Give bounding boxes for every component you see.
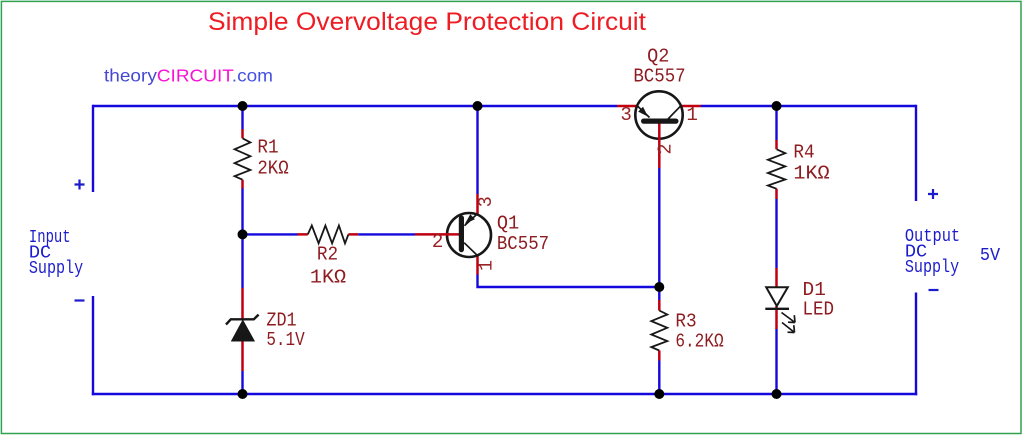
junction R1-R2-ZD1 node [238,229,248,239]
svg-text:Q2: Q2 [647,45,669,67]
wire: R1 branch from top rail [241,106,243,129]
svg-text:BC557: BC557 [497,233,549,255]
svg-text:1: 1 [686,104,698,126]
svg-text:3: 3 [620,104,632,126]
wire: R1 bottom to node [241,189,243,235]
wire: top rail to R4 [775,106,777,140]
junction top rail R4 [772,101,782,111]
junction Q1-Q2-R3 node [654,282,664,292]
svg-text:theoryCIRCUIT.com: theoryCIRCUIT.com [104,65,273,85]
svg-text:6.2KΩ: 6.2KΩ [675,331,723,353]
junction bottom rail R3 [654,389,664,399]
svg-text:BC557: BC557 [633,65,685,87]
label Input DC Supply [29,228,83,279]
svg-text:3: 3 [475,196,497,207]
LED D1 [765,268,795,333]
svg-text:Supply: Supply [905,258,959,278]
svg-text:1KΩ: 1KΩ [793,163,829,185]
junction top rail Q1 [473,101,483,111]
wire: bottom rail [92,393,917,395]
wire: right rail lower (- terminal) [915,293,917,396]
wire: R3 to bottom rail [658,361,660,395]
wire: top rail [93,105,916,107]
svg-text:Q1: Q1 [497,213,519,235]
wire: node to R2 [243,233,298,235]
zener diode ZD1 [226,288,259,371]
svg-text:R1: R1 [257,137,278,159]
label Output DC Supply [905,227,960,278]
svg-text:2: 2 [432,231,444,253]
resistor R1 [235,129,251,189]
junction bottom rail ZD1 [238,389,248,399]
svg-text:Supply: Supply [29,259,83,279]
wire: Q2 base down to node [658,168,660,287]
junction bottom rail D1 [772,389,782,399]
svg-text:2: 2 [655,144,677,155]
svg-text:1: 1 [476,260,498,271]
minus sign output [929,289,939,291]
transistor Q2 [617,91,701,168]
wire: left rail lower (- terminal) [92,296,94,395]
resistor R4 [768,140,785,199]
svg-text:2KΩ: 2KΩ [257,158,288,180]
wire: D1 to bottom rail [775,329,777,394]
resistor R3 [651,300,667,361]
svg-text:5.1V: 5.1V [266,329,305,351]
resistor R2 [297,226,358,244]
wire: ZD1 branch [241,234,243,288]
plus sign input [75,180,85,190]
svg-text:LED: LED [803,299,835,321]
svg-text:R3: R3 [675,311,696,333]
plus sign output [928,189,938,199]
svg-text:R4: R4 [793,142,814,164]
wire: R4 to D1 [775,199,777,268]
svg-text:R2: R2 [317,244,338,266]
wire: left rail upper (+ terminal) [92,105,94,192]
svg-text:1KΩ: 1KΩ [310,267,346,289]
wire: ZD1 to bottom rail [241,371,243,394]
minus sign input [75,299,85,301]
junction top rail R1 [238,101,248,111]
watermark theoryCIRCUIT.com [104,65,273,85]
svg-text:5V: 5V [980,246,1000,266]
transistor Q1 [415,194,491,275]
svg-text:Simple Overvoltage Protection: Simple Overvoltage Protection Circuit [208,8,646,36]
title [208,8,646,36]
wire: R2 to Q1 base [358,233,415,235]
wire: top rail to Q1 collector pin 3 [476,106,478,194]
wire: Q1 emitter down and right to node [476,275,659,288]
wire: right rail upper (+ terminal) [915,105,917,201]
wire: node to R3 [658,287,660,300]
